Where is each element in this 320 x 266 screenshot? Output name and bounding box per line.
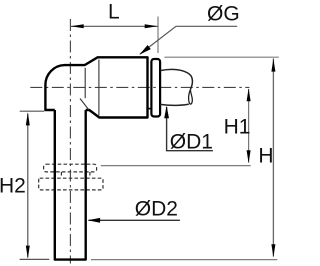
tube hose top edge [160, 69, 192, 89]
stem tube [55, 110, 86, 260]
body chamfer diagonal [80, 99, 89, 110]
hidden collet band (dashed) [44, 164, 97, 172]
svg-text:ØD2: ØD2 [135, 198, 178, 221]
hidden collet flange (dashed) [39, 178, 103, 190]
body edge line inner [84, 68, 86, 98]
leader OD2 [89, 219, 180, 221]
svg-text:H1: H1 [224, 116, 251, 139]
leader OD1 [167, 107, 213, 151]
dimension H line [272, 59, 274, 257]
svg-text:H2: H2 [0, 174, 26, 197]
svg-text:ØG: ØG [207, 2, 240, 25]
leader OD2 arrow [88, 218, 101, 223]
leader OD1 arrow [164, 106, 169, 119]
svg-text:H: H [258, 144, 273, 167]
slot connector [148, 108, 152, 110]
dimension H1 line [248, 89, 250, 163]
body outline elbow [45, 57, 147, 117]
svg-text:ØD1: ØD1 [170, 131, 213, 154]
tube hose bottom edge [160, 104, 189, 105]
dimension H2 arrow bottom [26, 246, 30, 259]
dimension L line [70, 25, 157, 27]
dimension H2 arrow top [26, 112, 30, 125]
body edge line cartridge [98, 60, 100, 116]
hidden collet tick right [89, 172, 91, 178]
svg-text:L: L [108, 1, 120, 24]
hidden collet tick left [60, 172, 62, 178]
dimension H arrow top [271, 59, 275, 72]
extension line H1 bottom [101, 165, 251, 167]
dimension L arrow right [145, 24, 158, 28]
dimension H1 arrow top [247, 88, 251, 101]
tube hose break loop [189, 90, 193, 105]
centerline vertical axis [69, 19, 71, 264]
release button [151, 59, 160, 117]
extension line bottom left [20, 258, 50, 260]
extension line H top [164, 56, 278, 58]
dimension H1 arrow bottom [247, 150, 251, 163]
extension line H2 top [20, 110, 45, 112]
extension line bottom right [91, 259, 277, 261]
dimension H2 line [27, 114, 29, 258]
extension line L right [157, 17, 159, 54]
leader OG arrow [139, 45, 151, 55]
dimension L arrow left [71, 24, 84, 28]
dimension H arrow bottom [271, 244, 275, 257]
leader OG [140, 26, 237, 54]
centerline horizontal axis [30, 86, 249, 88]
